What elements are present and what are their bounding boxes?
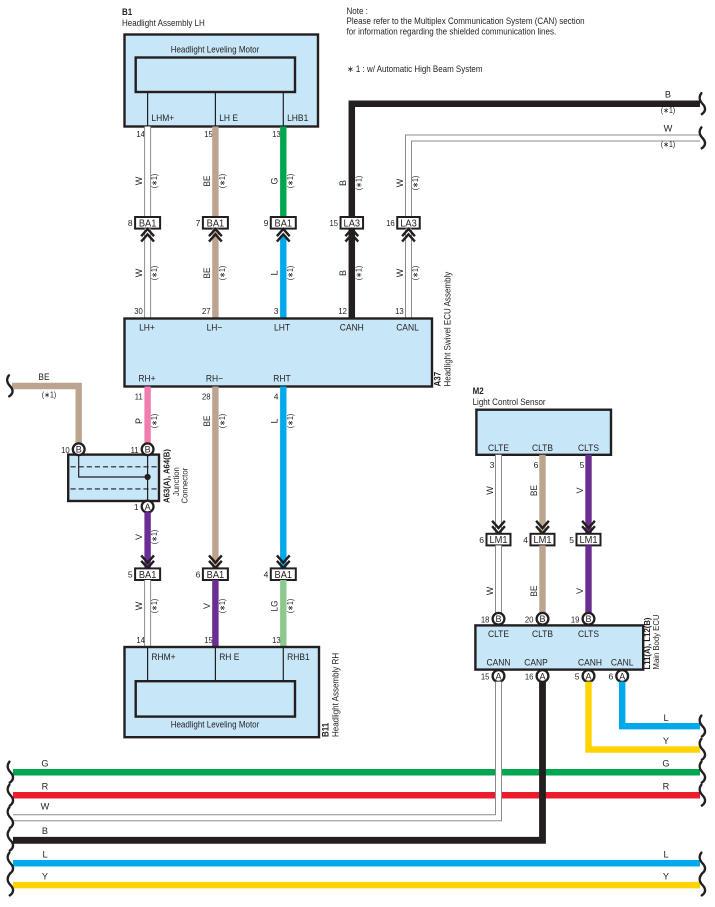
svg-text:B11: B11 [321, 723, 331, 737]
svg-text:8: 8 [128, 218, 133, 228]
labels W BE V lower [485, 586, 585, 597]
svg-text:14: 14 [136, 635, 145, 645]
box B11 Headlight Assembly RH [125, 647, 320, 737]
svg-text:7: 7 [196, 218, 201, 228]
svg-text:G: G [41, 759, 48, 769]
svg-text:BE: BE [202, 416, 212, 427]
wire LG BA1-4 to pin13 [280, 580, 286, 647]
svg-text:CLTE: CLTE [488, 443, 509, 453]
svg-text:Headlight Leveling Motor: Headlight Leveling Motor [171, 45, 260, 55]
svg-text:W: W [41, 802, 50, 812]
chevron down [277, 555, 290, 568]
svg-text:LHT: LHT [274, 323, 290, 333]
chevron down lm1 [536, 521, 549, 534]
label BE (*1) rh [202, 414, 227, 429]
wire BE from left edge to junction [12, 386, 79, 444]
svg-text:LM1: LM1 [489, 535, 507, 546]
svg-text:P: P [134, 418, 144, 424]
label W (*1) [134, 174, 159, 189]
connector 9 BA1 [264, 217, 296, 229]
svg-text:BE: BE [202, 176, 212, 187]
svg-text:V: V [134, 534, 144, 540]
svg-text:W: W [485, 486, 495, 495]
svg-text:20: 20 [525, 614, 534, 624]
svg-text:BA1: BA1 [207, 570, 225, 581]
svg-text:3: 3 [490, 460, 495, 470]
svg-text:3: 3 [274, 306, 279, 316]
svg-text:(∗1): (∗1) [354, 176, 363, 191]
connector 20 B [525, 613, 548, 625]
wire L BA1-9 to pin3 [280, 236, 286, 319]
svg-text:5: 5 [575, 672, 580, 682]
M2 terminal labels [488, 443, 599, 453]
svg-text:5: 5 [580, 460, 585, 470]
terminal stub RHM+ [147, 647, 149, 681]
svg-text:13: 13 [395, 306, 404, 316]
chevron down lm1 [582, 521, 595, 534]
connector 18 B [481, 613, 505, 625]
svg-text:A: A [585, 671, 591, 681]
svg-text:Headlight Assembly LH: Headlight Assembly LH [122, 18, 205, 28]
svg-text:L: L [42, 850, 47, 860]
svg-text:13: 13 [272, 635, 281, 645]
svg-text:10: 10 [61, 445, 70, 455]
svg-text:5: 5 [569, 535, 574, 545]
svg-text:LH+: LH+ [139, 323, 155, 333]
svg-text:14: 14 [136, 129, 145, 139]
wire P pin11 to junction B [144, 387, 150, 445]
svg-text:M2: M2 [473, 386, 484, 396]
svg-text:L: L [270, 418, 280, 423]
dashed line 1 [71, 466, 158, 468]
chevron up [345, 229, 358, 242]
pins 3 6 5 [490, 460, 585, 470]
connector 5 LM1 [569, 534, 600, 546]
svg-text:B: B [338, 180, 348, 186]
svg-text:W: W [664, 124, 673, 134]
svg-text:Light Control Sensor: Light Control Sensor [473, 397, 546, 407]
svg-text:BE: BE [202, 268, 212, 279]
svg-text:L: L [663, 850, 668, 860]
dashed line 2 [71, 488, 158, 490]
svg-text:(∗1): (∗1) [411, 266, 420, 281]
wire V BA1-6 to pin15 [212, 580, 218, 647]
connector 5 BA1 lower [128, 568, 160, 580]
svg-text:6: 6 [479, 535, 484, 545]
svg-text:(∗1): (∗1) [286, 414, 295, 429]
break Y left [8, 875, 13, 896]
svg-text:4: 4 [523, 535, 528, 545]
label W (*1) top [661, 124, 676, 149]
wire Y CANH to right edge [589, 682, 701, 750]
svg-text:R: R [663, 782, 670, 792]
wire BE BA1-7 to pin27 [212, 229, 218, 319]
break W right [700, 127, 705, 148]
terminal stub LHM+ [147, 92, 149, 127]
wire L pin4 to BA1-4 [280, 387, 286, 569]
chevron up [402, 229, 415, 242]
svg-text:RH−: RH− [206, 374, 223, 384]
svg-text:RH E: RH E [219, 652, 239, 662]
wire B CANH to right edge [352, 104, 700, 217]
svg-text:A: A [495, 671, 501, 681]
svg-text:LG: LG [270, 601, 280, 612]
svg-text:15: 15 [329, 218, 338, 228]
break BE left [7, 375, 12, 396]
labels R [42, 782, 670, 792]
svg-text:Please refer to the Multiplex: Please refer to the Multiplex Communicat… [347, 16, 585, 26]
svg-text:BA1: BA1 [139, 570, 157, 581]
label V (*1) [134, 530, 159, 545]
junction box A63 A64 [68, 455, 159, 501]
svg-text:Headlight Assembly RH: Headlight Assembly RH [331, 653, 341, 737]
svg-text:CLTS: CLTS [578, 629, 599, 639]
box A37 Headlight Swivel ECU Assembly [125, 319, 433, 387]
break L left [8, 853, 13, 874]
svg-text:(∗1): (∗1) [150, 414, 159, 429]
svg-text:∗ 1 : w/ Automatic High Beam S: ∗ 1 : w/ Automatic High Beam System [347, 64, 483, 74]
svg-text:B: B [665, 90, 671, 100]
wire BE CLTB to LM1-4 [539, 455, 545, 534]
svg-text:CLTE: CLTE [488, 629, 509, 639]
break L right upper [700, 716, 705, 737]
wire BE pin28 to BA1-6 [212, 387, 218, 569]
svg-text:W: W [395, 178, 405, 187]
svg-text:LM1: LM1 [579, 535, 597, 546]
terminal stub RHB1 [282, 647, 284, 681]
label B (*1) vertical [338, 176, 363, 191]
label B1 [122, 7, 205, 28]
svg-text:V: V [575, 487, 585, 493]
label BE (*1) left [38, 372, 56, 400]
wire B CANP to B bus [13, 682, 543, 841]
main body ECU labels bottom [487, 658, 634, 668]
svg-text:Connector: Connector [180, 468, 190, 504]
svg-text:Main Body ECU: Main Body ECU [651, 615, 661, 670]
wire V junction 1A to BA1-5 [144, 512, 150, 568]
svg-text:11: 11 [131, 445, 139, 455]
svg-text:CLTB: CLTB [532, 629, 553, 639]
svg-text:Note :: Note : [347, 6, 368, 16]
chevron up [141, 229, 154, 242]
terminal stub RH E [214, 647, 216, 681]
junction internal wire from 10B [79, 455, 148, 477]
terminal stub LH E [214, 92, 216, 127]
svg-text:(∗1): (∗1) [286, 174, 295, 189]
bus L [13, 860, 700, 867]
label G (*1) [270, 174, 295, 189]
svg-text:(∗1): (∗1) [411, 176, 420, 191]
connector 7 BA1 [196, 217, 228, 229]
svg-text:Y: Y [42, 872, 48, 882]
svg-text:B: B [42, 826, 48, 836]
labels L bus [42, 850, 668, 860]
svg-text:W: W [134, 268, 144, 277]
svg-text:6: 6 [196, 570, 201, 580]
svg-text:CLTB: CLTB [532, 443, 553, 453]
svg-text:V: V [575, 588, 585, 594]
bus R [13, 792, 700, 799]
terminal labels B1 [151, 113, 308, 123]
wire B LA3-15 to pin12 [349, 229, 356, 319]
labels W BE L B W above ECU [134, 266, 420, 281]
junction internal wire 11B to 1A [147, 455, 149, 501]
svg-text:G: G [270, 177, 280, 184]
terminal labels B11 [151, 652, 309, 662]
svg-text:15: 15 [481, 672, 490, 682]
svg-text:BA1: BA1 [275, 570, 293, 581]
svg-text:12: 12 [338, 306, 347, 316]
svg-text:L: L [270, 270, 280, 275]
wire W CLTE to LM1-6 [496, 455, 502, 534]
svg-text:19: 19 [571, 614, 580, 624]
break B left [8, 830, 13, 851]
wire W LA3-16 to pin13 [406, 229, 412, 319]
inner box headlight leveling motor LH [136, 58, 295, 93]
svg-text:B: B [338, 270, 348, 276]
svg-text:(∗1): (∗1) [150, 530, 159, 545]
svg-text:W: W [134, 176, 144, 185]
chevron down lm1 [492, 521, 505, 534]
terminal stub LHB1 [282, 92, 284, 127]
connector 6 LM1 [479, 534, 510, 546]
labels Y bus [42, 872, 669, 882]
svg-text:(∗1): (∗1) [354, 266, 363, 281]
svg-text:Y: Y [663, 872, 669, 882]
connector 4 LM1 [523, 534, 554, 546]
ECU terminal labels bottom [138, 374, 291, 384]
pins 11 28 4 [135, 392, 279, 402]
break B right [700, 93, 705, 114]
svg-text:15: 15 [204, 129, 213, 139]
svg-text:RHB1: RHB1 [287, 652, 310, 662]
svg-text:(∗1): (∗1) [42, 391, 57, 400]
svg-text:LHB1: LHB1 [287, 113, 308, 123]
svg-text:Headlight Leveling Motor: Headlight Leveling Motor [171, 720, 260, 730]
svg-text:5: 5 [128, 570, 133, 580]
svg-text:16: 16 [525, 672, 534, 682]
svg-text:Headlight Swivel ECU Assembly: Headlight Swivel ECU Assembly [443, 271, 453, 386]
box B1 Headlight Assembly LH [125, 35, 319, 127]
connector 6 BA1 lower [196, 568, 228, 580]
ECU terminal labels top [139, 323, 419, 333]
junction dot [145, 474, 151, 480]
svg-text:CANP: CANP [524, 658, 548, 668]
label BE (*1) [202, 174, 227, 189]
svg-text:for information regarding the: for information regarding the shielded c… [347, 26, 557, 36]
wire W BA1-5 to pin14 [145, 580, 151, 647]
connector 16 LA3 [386, 217, 420, 229]
label L (*1) rh [270, 414, 295, 429]
svg-text:B: B [539, 614, 545, 624]
pins 14 15 13 rh [136, 635, 281, 645]
connector 11 B [131, 443, 154, 455]
connector 4 BA1 lower [264, 568, 296, 580]
svg-text:30: 30 [134, 306, 143, 316]
wire V CLTS to LM1-5 [585, 455, 591, 534]
svg-text:6: 6 [534, 460, 539, 470]
svg-text:CANH: CANH [340, 323, 364, 333]
connector 6 A [608, 670, 628, 682]
label M2 [473, 386, 546, 407]
bus Y [13, 882, 700, 889]
break L right [700, 853, 705, 874]
svg-text:18: 18 [481, 614, 490, 624]
svg-text:A: A [145, 502, 151, 512]
svg-text:(∗1): (∗1) [661, 106, 676, 115]
connector 10 B [61, 443, 85, 455]
svg-text:15: 15 [204, 635, 213, 645]
break R right [700, 785, 705, 806]
svg-text:(∗1): (∗1) [150, 174, 159, 189]
bus G [13, 769, 700, 776]
svg-text:RHM+: RHM+ [151, 652, 175, 662]
svg-text:Y: Y [663, 736, 669, 746]
svg-text:V: V [202, 603, 212, 609]
inner box headlight leveling motor RH [136, 681, 295, 716]
connector 19 B [571, 613, 594, 625]
svg-text:A37: A37 [433, 372, 443, 387]
chevron up [277, 229, 290, 242]
svg-text:A63(A), A64(B): A63(A), A64(B) [162, 449, 172, 503]
svg-text:(∗1): (∗1) [218, 174, 227, 189]
svg-text:RH+: RH+ [138, 374, 155, 384]
break G left [8, 762, 13, 783]
connector 1 A [134, 501, 154, 513]
wire G pin13 to BA1-9 [280, 127, 286, 218]
break Y right [700, 875, 705, 896]
svg-text:W: W [134, 601, 144, 610]
wire W CANL to right edge [409, 138, 701, 217]
svg-text:4: 4 [274, 392, 279, 402]
svg-text:CANN: CANN [487, 658, 511, 668]
svg-text:L: L [663, 713, 668, 723]
wire W CANN to W bus [13, 682, 499, 818]
svg-text:4: 4 [264, 570, 269, 580]
labels W BE V m2 [485, 485, 585, 496]
pins 30 27 3 12 13 [134, 306, 404, 316]
svg-text:CANL: CANL [396, 323, 419, 333]
svg-text:B: B [495, 614, 501, 624]
svg-text:RHT: RHT [273, 374, 291, 384]
connector 15 A [481, 670, 505, 682]
svg-text:CANH: CANH [578, 658, 602, 668]
label B (*1) top [661, 90, 676, 115]
labels G [41, 759, 669, 769]
connector 8 BA1 [128, 217, 160, 229]
break W left [8, 807, 13, 828]
svg-text:B1: B1 [122, 7, 132, 17]
svg-text:1: 1 [134, 502, 139, 512]
svg-text:LH E: LH E [219, 113, 238, 123]
svg-text:LM1: LM1 [533, 535, 551, 546]
connector 15 LA3 [329, 217, 363, 229]
svg-text:(∗1): (∗1) [286, 599, 295, 614]
svg-text:BE: BE [529, 586, 539, 597]
wire W LM1-6 to 18B [496, 545, 502, 613]
svg-text:(∗1): (∗1) [150, 599, 159, 614]
svg-text:B: B [145, 445, 151, 455]
label P (*1) [134, 414, 159, 429]
svg-text:13: 13 [272, 129, 281, 139]
svg-text:28: 28 [202, 392, 211, 402]
break G right [700, 762, 705, 783]
svg-text:(∗1): (∗1) [218, 599, 227, 614]
svg-text:11: 11 [135, 392, 143, 402]
note text [347, 6, 585, 36]
wire V LM1-5 to 19B [585, 545, 591, 613]
chevron down [209, 555, 222, 568]
svg-text:BE: BE [38, 372, 49, 382]
main body ECU labels top [488, 629, 599, 639]
svg-text:A: A [539, 671, 545, 681]
box L11 L12 Main Body ECU [475, 625, 643, 669]
svg-text:B: B [76, 445, 82, 455]
svg-text:LH−: LH− [207, 323, 223, 333]
svg-text:(∗1): (∗1) [286, 266, 295, 281]
svg-text:16: 16 [386, 218, 395, 228]
labels W V LG (*1) [134, 599, 295, 614]
svg-text:(∗1): (∗1) [218, 414, 227, 429]
svg-text:LHM+: LHM+ [151, 113, 174, 123]
svg-text:W: W [485, 586, 495, 595]
wire W pin14 to BA1-8 [145, 127, 151, 218]
connector 16 A [525, 670, 548, 682]
svg-text:27: 27 [202, 306, 211, 316]
chevron down [141, 555, 154, 568]
svg-text:R: R [42, 782, 49, 792]
svg-text:6: 6 [608, 672, 613, 682]
svg-text:CLTS: CLTS [578, 443, 599, 453]
svg-text:9: 9 [264, 218, 269, 228]
svg-text:A: A [619, 671, 625, 681]
connector 5 A [575, 670, 595, 682]
svg-text:W: W [395, 268, 405, 277]
svg-text:(∗1): (∗1) [661, 140, 676, 149]
svg-text:(∗1): (∗1) [150, 266, 159, 281]
chevron up [209, 229, 222, 242]
break Y right upper [700, 739, 705, 760]
box M2 Light Control Sensor [476, 410, 611, 455]
wire BE pin15 to BA1-7 [212, 127, 218, 218]
wire BE LM1-4 to 20B [539, 545, 545, 613]
svg-text:G: G [662, 759, 669, 769]
wire L CANL to right edge [622, 682, 700, 727]
svg-text:CANL: CANL [611, 658, 634, 668]
svg-text:(∗1): (∗1) [218, 266, 227, 281]
svg-text:BE: BE [529, 485, 539, 496]
svg-text:B: B [585, 614, 591, 624]
break R left [8, 785, 13, 806]
wire W BA1-8 to pin30 [145, 229, 151, 319]
label W (*1) vertical [395, 176, 420, 191]
